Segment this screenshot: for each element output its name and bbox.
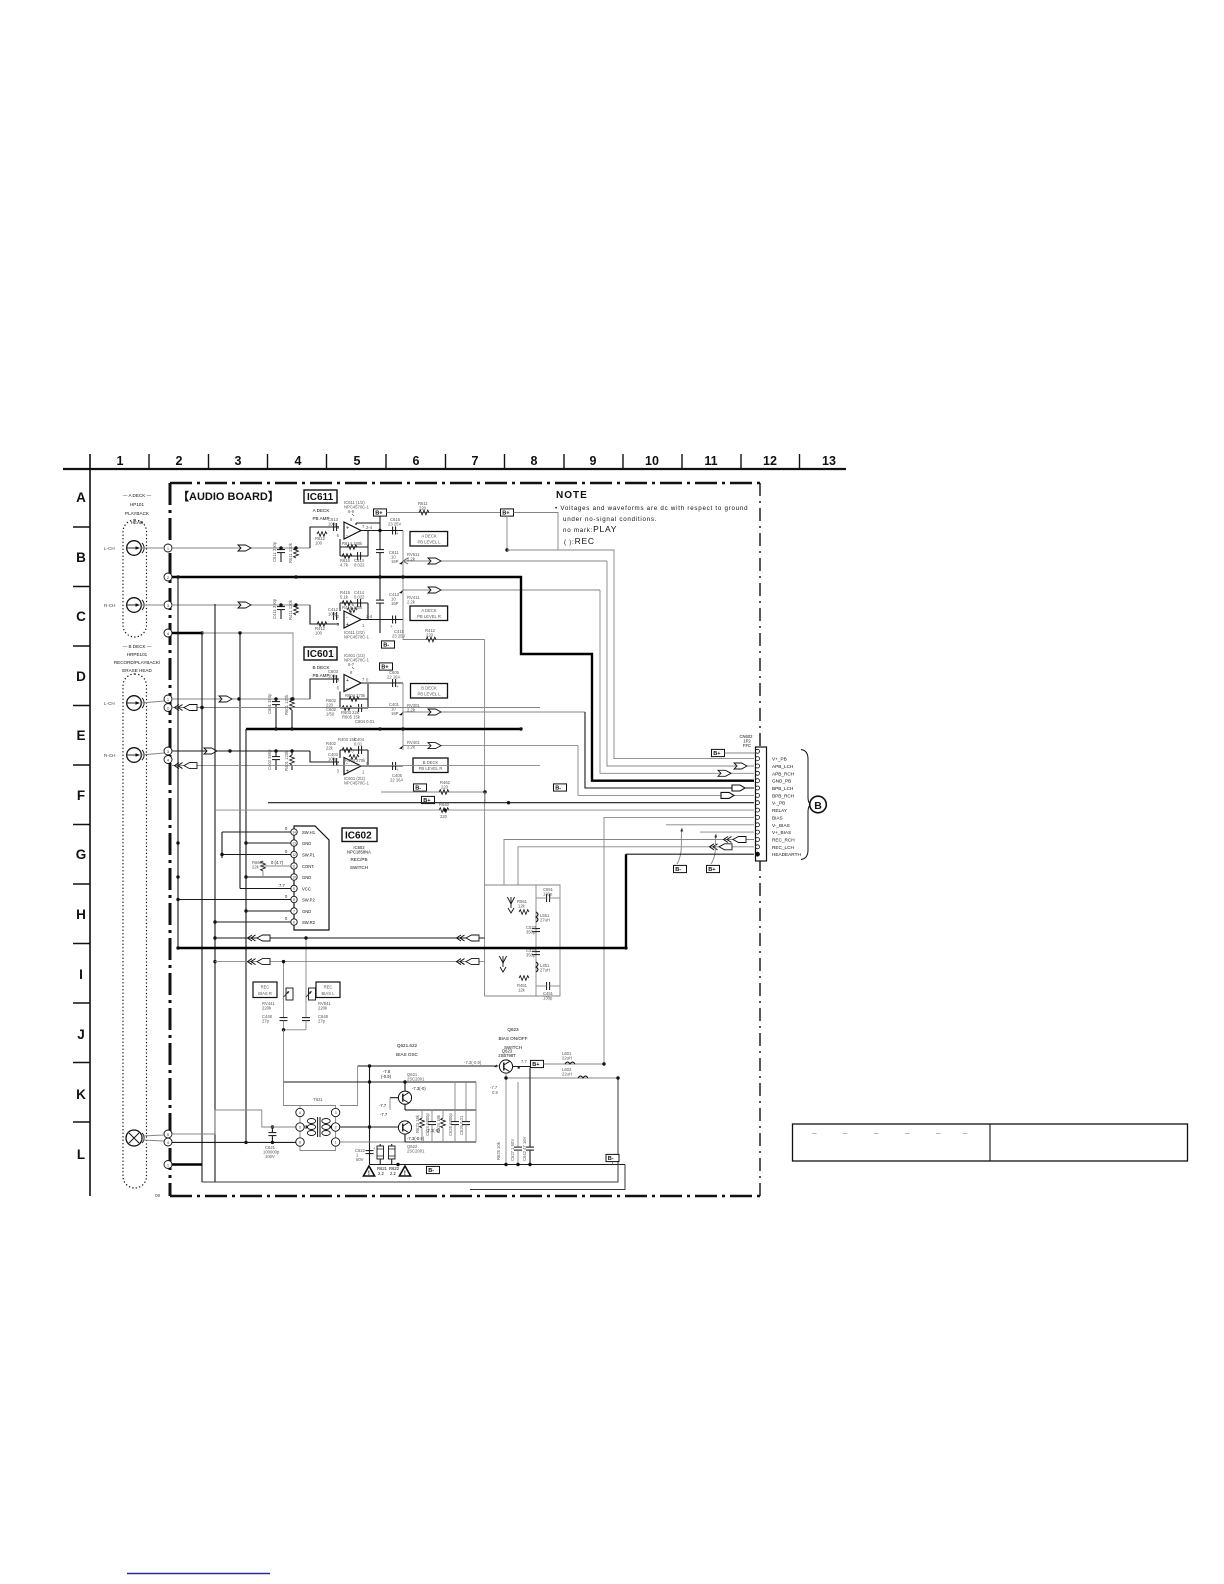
svg-text:-7.3(-0): -7.3(-0) [412,1086,426,1091]
B+ box lower [422,796,435,804]
svg-text:6-6: 6-6 [348,509,355,514]
svg-text:—: — [905,1131,910,1136]
B+ box right [501,509,514,517]
svg-text:PB AMP: PB AMP [312,516,329,521]
svg-text:IC601: IC601 [307,649,334,660]
C605 output cap [387,670,400,689]
record/play head R-CH [127,748,144,763]
svg-text:BIAS R: BIAS R [258,991,272,996]
ground bus A-deck to GND_PB [172,575,754,780]
B+ box IC611 [374,509,387,517]
svg-text:D: D [76,669,86,684]
svg-text:HRPE101: HRPE101 [127,652,148,657]
svg-text:+: + [373,1146,376,1151]
RV441 trimmer [262,962,293,1018]
svg-text:F: F [77,788,85,803]
svg-text:1: 1 [362,770,365,775]
svg-text:L-CH: L-CH [104,701,115,706]
bias feed inductors L601 L602 [506,1051,618,1078]
svg-text:C627 1 50V: C627 1 50V [510,1139,515,1161]
svg-text:6: 6 [337,533,340,538]
svg-text:B: B [76,550,86,565]
svg-text:12: 12 [292,853,296,857]
svg-text:PB AMP: PB AMP [312,673,329,678]
warning triangle left [363,1166,374,1177]
HEADEARTH bus [626,854,754,948]
svg-text:ERASE HEAD: ERASE HEAD [122,668,152,673]
svg-text:L-CH: L-CH [104,546,115,551]
R660 22k [252,860,265,871]
svg-text:220: 220 [440,814,448,819]
svg-text:16P: 16P [391,559,399,564]
wire REC_LCH long [215,959,485,965]
Q623 title [498,1027,527,1050]
svg-text:14: 14 [292,831,296,835]
B-deck L input network C601 R601 [267,669,339,729]
wire REC_RCH long [215,935,485,941]
svg-text:11: 11 [704,454,717,468]
svg-text:2: 2 [176,454,183,468]
svg-text:220k: 220k [262,1006,272,1011]
svg-text:12k: 12k [518,904,526,909]
svg-text:8: 8 [350,670,353,675]
wire V-_PB [268,801,754,804]
svg-text:APB_RCH: APB_RCH [772,771,794,776]
connector CN602 body [756,747,767,861]
wire A-deck L-CH head to pin [141,547,164,549]
svg-text:SW.R2: SW.R2 [302,920,316,925]
svg-text:1: 1 [335,1141,337,1145]
wire RELAY [215,808,754,811]
svg-text:HP101: HP101 [130,502,144,507]
svg-text:100p: 100p [328,522,338,527]
REC BIAS L box [316,982,340,998]
left ruler row letters A-L [76,490,87,1162]
C448 cap [262,1014,288,1030]
svg-text:100p: 100p [328,757,338,762]
top ruler ticks [149,454,800,468]
svg-text:【AUDIO BOARD】: 【AUDIO BOARD】 [178,490,279,503]
fusible resistor R621 [377,1144,384,1165]
L451 [536,962,550,973]
svg-text:I: I [79,967,83,982]
svg-text:H: H [76,907,86,922]
board edge pin 4 B-deck [164,756,172,764]
svg-text:+: + [396,767,399,772]
svg-text:11: 11 [292,865,296,869]
top ruler column numbers 1-13 [117,454,836,468]
IC601 label box [304,647,337,660]
svg-text:130p: 130p [543,996,553,1001]
C433 [526,948,540,958]
svg-text:350p: 350p [526,930,536,935]
wire B-deck R-CH head to pin [141,753,164,755]
svg-text:R625 10k: R625 10k [496,1141,501,1160]
B deck head dotted enclosure [123,674,147,1188]
Q623 part number [498,1049,516,1059]
svg-text:R416 180k: R416 180k [342,605,363,610]
svg-text:R404 270k: R404 270k [345,758,366,763]
svg-text:1: 1 [362,623,365,628]
svg-text:—: — [963,1131,968,1136]
B-deck L output wire [361,682,403,684]
svg-text:IC611: IC611 [307,492,334,503]
svg-text:+: + [346,526,349,532]
svg-text:NPC1858NA: NPC1858NA [347,850,371,855]
svg-text:+: + [346,678,349,684]
svg-text:A: A [76,490,86,505]
B deck head labels [114,644,161,673]
R451 [517,976,529,993]
svg-text:100p: 100p [328,674,338,679]
svg-text:100V: 100V [265,1154,275,1159]
svg-text:V-_BIAS: V-_BIAS [772,823,790,828]
C615 output cap [388,517,401,536]
svg-text:27p: 27p [262,1019,270,1024]
svg-text:5: 5 [354,454,361,468]
erase head [126,1130,144,1146]
R551 [517,899,529,914]
connector CN602 pins [756,749,760,856]
svg-text:23 25V: 23 25V [392,634,405,639]
svg-text:220: 220 [419,506,427,511]
A DECK PB LEVEL R box [410,606,448,621]
svg-text:16P: 16P [391,601,399,606]
Q623 emitter string [490,1068,534,1165]
svg-text:8: 8 [531,454,538,468]
svg-text:22 16A: 22 16A [390,778,403,783]
svg-text:B DECK: B DECK [423,760,439,765]
svg-text:PLAYBACK: PLAYBACK [125,511,150,516]
svg-text:100: 100 [315,631,323,636]
svg-text:4: 4 [299,1111,301,1115]
svg-text:-7.3(-0.9): -7.3(-0.9) [464,1060,482,1065]
svg-text:0 (4.7): 0 (4.7) [271,860,284,865]
svg-text:V+_PB: V+_PB [772,757,787,762]
B+ rail to pin8 [356,516,380,525]
record/play head L-CH [127,696,144,711]
svg-text:7: 7 [472,454,479,468]
B-deck R output wire [361,765,403,767]
svg-text:R411 120k: R411 120k [288,599,293,620]
svg-text:22k: 22k [252,865,260,870]
svg-text:0: 0 [285,849,288,854]
svg-text:3: 3 [235,454,242,468]
B-deck R feedback network [326,737,368,765]
svg-text:220k: 220k [318,1006,328,1011]
board edge pin 3 B-deck [164,747,172,755]
svg-text:NOTE: NOTE [556,490,588,501]
svg-text:R401 120k: R401 120k [284,750,289,771]
svg-text:8: 8 [350,517,353,522]
svg-text:( ):REC: ( ):REC [564,536,595,546]
svg-text:0.01: 0.01 [354,742,363,747]
svg-text:BIAS L: BIAS L [321,991,335,996]
svg-text:23 25V: 23 25V [388,522,401,527]
svg-text:SWITCH: SWITCH [350,865,368,870]
RV611 trimmer column [389,531,420,620]
svg-text:350p: 350p [526,953,536,958]
audio board dash-dot border left [169,483,172,1196]
R462 network [381,780,487,803]
svg-text:T621: T621 [313,1097,323,1102]
svg-text:220: 220 [426,633,434,638]
board edge pin 1 A-deck [164,544,172,552]
svg-text:10: 10 [292,876,296,880]
A-deck R input network C411 R411 [272,598,339,635]
svg-text:C626 0.01: C626 0.01 [459,1115,464,1135]
svg-text:27uH: 27uH [540,918,550,923]
svg-text:9: 9 [293,887,295,891]
svg-text:REC: REC [261,985,270,990]
svg-text:-7.7: -7.7 [379,1103,387,1108]
erase head wire 4 [141,1140,295,1144]
note body [555,505,748,546]
C648 cap [302,1014,329,1030]
svg-text:-7.7: -7.7 [380,1112,388,1117]
wire V-_BIAS hop [666,825,754,873]
T621 feed wires [284,1082,301,1106]
svg-text:0: 0 [366,678,369,683]
op-amp IC601a B-deck L [337,653,370,692]
svg-text:12k: 12k [518,988,526,993]
REC BIAS R box [253,982,277,998]
svg-text:no mark:PLAY: no mark:PLAY [563,524,617,534]
svg-text:130p: 130p [543,892,553,897]
IC611 subtitle [312,508,330,521]
svg-text:—: — [843,1131,848,1136]
bottom-right revision table [793,1124,1188,1161]
oscillator RC ladder [390,1082,476,1142]
svg-text:2: 2 [335,1126,337,1130]
svg-text:G: G [76,847,87,862]
Q621 collector wire [284,1080,477,1091]
ground arrow upper [507,897,514,913]
Q623 output [513,1059,530,1069]
svg-text:3: 3 [335,1111,337,1115]
audio board dash-dot border bottom [170,1195,760,1198]
svg-text:2.2: 2.2 [378,1171,384,1176]
svg-text:GND_PB: GND_PB [772,779,791,784]
svg-text:GND: GND [302,909,311,914]
svg-text:R604 270k: R604 270k [345,693,366,698]
B- right bus riser [606,1154,619,1164]
C622 cap [355,1146,376,1162]
svg-text:BIAS OSC: BIAS OSC [396,1052,418,1057]
fusible resistor R622 [389,1144,396,1165]
L551 [536,912,550,923]
wire A-deck R-CH input [172,602,339,624]
wire B-deck R-CH input [172,748,339,762]
IC602 pin names [302,830,316,925]
op-amp IC611b A-deck R [337,602,373,640]
svg-text:0: 0 [285,916,288,921]
svg-text:2.2: 2.2 [390,1171,396,1176]
RV301 trimmer column [389,683,420,750]
rec bias join wire [282,1028,306,1082]
B-deck R input network C402 R401 [267,749,339,771]
B- box right [554,784,567,792]
svg-text:C624 6800p: C624 6800p [425,1113,430,1136]
svg-text:C411 390p: C411 390p [272,598,277,619]
IC602 label box [342,828,377,842]
svg-text:7: 7 [293,910,295,914]
svg-text:J: J [77,1027,85,1042]
svg-text:REC: REC [324,985,333,990]
B DECK PB LEVEL R box [413,758,448,773]
svg-text:—: — [812,1131,817,1136]
Q621 [398,1072,425,1104]
B+ wire to connector V+_PB [505,513,754,759]
wire B-deck L-CH return [172,705,540,711]
svg-text:C601 390p: C601 390p [267,693,272,714]
svg-text:0: 0 [285,826,288,831]
B- box oscillator [427,1166,440,1174]
svg-text:50V: 50V [356,1157,364,1162]
A deck head labels [123,493,152,525]
wire A-deck pin4 shield [172,631,295,700]
svg-text:0.022: 0.022 [354,595,365,600]
svg-text:A DECK: A DECK [421,608,437,613]
svg-text:6: 6 [413,454,420,468]
IC602 rec/pb switch body [294,826,329,930]
svg-text:NPC4570C-1: NPC4570C-1 [344,505,370,510]
board edge pin 5 erase [164,1130,172,1138]
B- return wire of A-deck [403,620,485,886]
svg-text:C: C [76,609,86,624]
bias loop outer [470,1165,625,1190]
A-deck L input network C611 R611 [272,517,339,563]
svg-text:100p: 100p [328,612,338,617]
svg-text:Q623: Q623 [507,1027,519,1032]
board edge pin 2 A-deck [164,573,172,581]
svg-text:B DECK: B DECK [421,686,437,691]
C551 [536,887,560,902]
svg-text:— A DECK —: — A DECK — [123,493,152,498]
svg-text:GND: GND [302,875,311,880]
svg-text:2SC2001: 2SC2001 [407,1149,425,1154]
supply decoupling column x380 [376,523,384,633]
svg-text:R-CH: R-CH [104,753,115,758]
svg-text:BIAS: BIAS [772,815,783,820]
IC601 subtitle [312,665,330,678]
svg-text:R623 18k: R623 18k [415,1114,420,1133]
wire A-deck R-CH head to pin [141,604,164,606]
svg-text:V-_PB: V-_PB [772,801,785,806]
svg-text:FFC: FFC [743,743,751,748]
transformer T621 [296,1097,340,1151]
svg-text:4.7k: 4.7k [340,563,349,568]
board edge pin 1 erase [164,1161,172,1169]
svg-text:HEADEARTH: HEADEARTH [772,852,801,857]
oscillator title [396,1043,418,1057]
svg-text:R611 120k: R611 120k [288,542,293,563]
A-deck R output wire [361,619,403,621]
svg-text:6: 6 [293,921,295,925]
B- box IC601 [414,784,427,792]
svg-text:5.1k: 5.1k [340,595,349,600]
svg-text:V+_BIAS: V+_BIAS [772,830,791,835]
head shield drop x240 [238,631,290,888]
A-deck L output wire [361,530,403,532]
RV301 wiper wire to connector BPB_LCH [403,709,754,791]
svg-text:7.7: 7.7 [279,883,285,888]
B+ distribution wire [387,501,502,515]
svg-text:4: 4 [295,454,302,468]
svg-text:16P: 16P [391,711,399,716]
erase head wire 5 [141,1110,295,1136]
bias loop down right [202,1076,620,1182]
svg-text:L: L [77,1147,85,1162]
svg-text:+: + [346,769,349,775]
connector pin names [772,757,801,858]
svg-text:RELAY: RELAY [772,808,788,813]
R622 value [389,1166,400,1176]
B DECK PB LEVEL L box [411,684,448,699]
C533 [526,925,540,935]
svg-text:Q621.622: Q621.622 [397,1043,418,1048]
svg-text:22 16A: 22 16A [387,675,400,680]
B+ box oscillator [531,1060,544,1068]
svg-text:—: — [936,1131,941,1136]
svg-text:2SB798T: 2SB798T [498,1053,516,1058]
svg-text:NPC4570C-1: NPC4570C-1 [344,635,370,640]
svg-text:13: 13 [292,842,296,846]
svg-text:APB_LCH: APB_LCH [772,764,793,769]
wire B-deck R-CH return [172,763,540,769]
B- box A-deck [382,641,395,649]
vertical bus x246 [244,729,247,1144]
svg-text:SW.P2: SW.P2 [302,898,315,903]
B+ box IC601 [380,663,393,671]
A-deck R feedback R415 C414 [340,590,368,619]
svg-text:13: 13 [822,454,836,468]
Q623 [464,1060,513,1073]
svg-text:22k: 22k [326,746,334,751]
svg-text:0: 0 [285,894,288,899]
svg-text:09: 09 [155,1193,161,1198]
svg-text:22uH: 22uH [562,1056,572,1061]
svg-text:— B DECK —: — B DECK — [123,644,152,649]
svg-text:C402 390p: C402 390p [267,749,272,770]
R621 value [377,1166,388,1176]
A deck head dotted enclosure [123,520,147,637]
IC611 label box [304,490,337,503]
svg-text:REC_LCH: REC_LCH [772,845,794,850]
vertical bus x178 [176,575,179,949]
svg-text:27p: 27p [318,1019,326,1024]
svg-text:—: — [874,1131,879,1136]
svg-text:under no-signal conditions.: under no-signal conditions. [563,516,657,523]
erase ground wire [172,1163,202,1165]
svg-text:R-CH: R-CH [104,603,115,608]
op-amp IC601b B-deck R [337,749,370,786]
svg-text:R601 120k: R601 120k [284,694,289,715]
board edge pin 3 A-deck [164,601,172,609]
oscillator loop wires [340,1064,499,1164]
svg-text:6: 6 [299,1141,301,1145]
svg-text:R624 18k: R624 18k [436,1114,441,1133]
svg-text:REC_RCH: REC_RCH [772,838,795,843]
svg-text:• Voltages and waveforms are d: • Voltages and waveforms are dc with res… [555,505,748,512]
svg-text:SW.P1: SW.P1 [302,853,315,858]
bottom blue rule [127,1573,270,1575]
svg-text:BPB_RCH: BPB_RCH [772,793,794,798]
wire B-deck L-CH input [172,679,339,702]
B- bottom bus [370,1163,626,1166]
svg-text:22uH: 22uH [562,1072,572,1077]
wire A-deck L-CH input [172,527,339,551]
